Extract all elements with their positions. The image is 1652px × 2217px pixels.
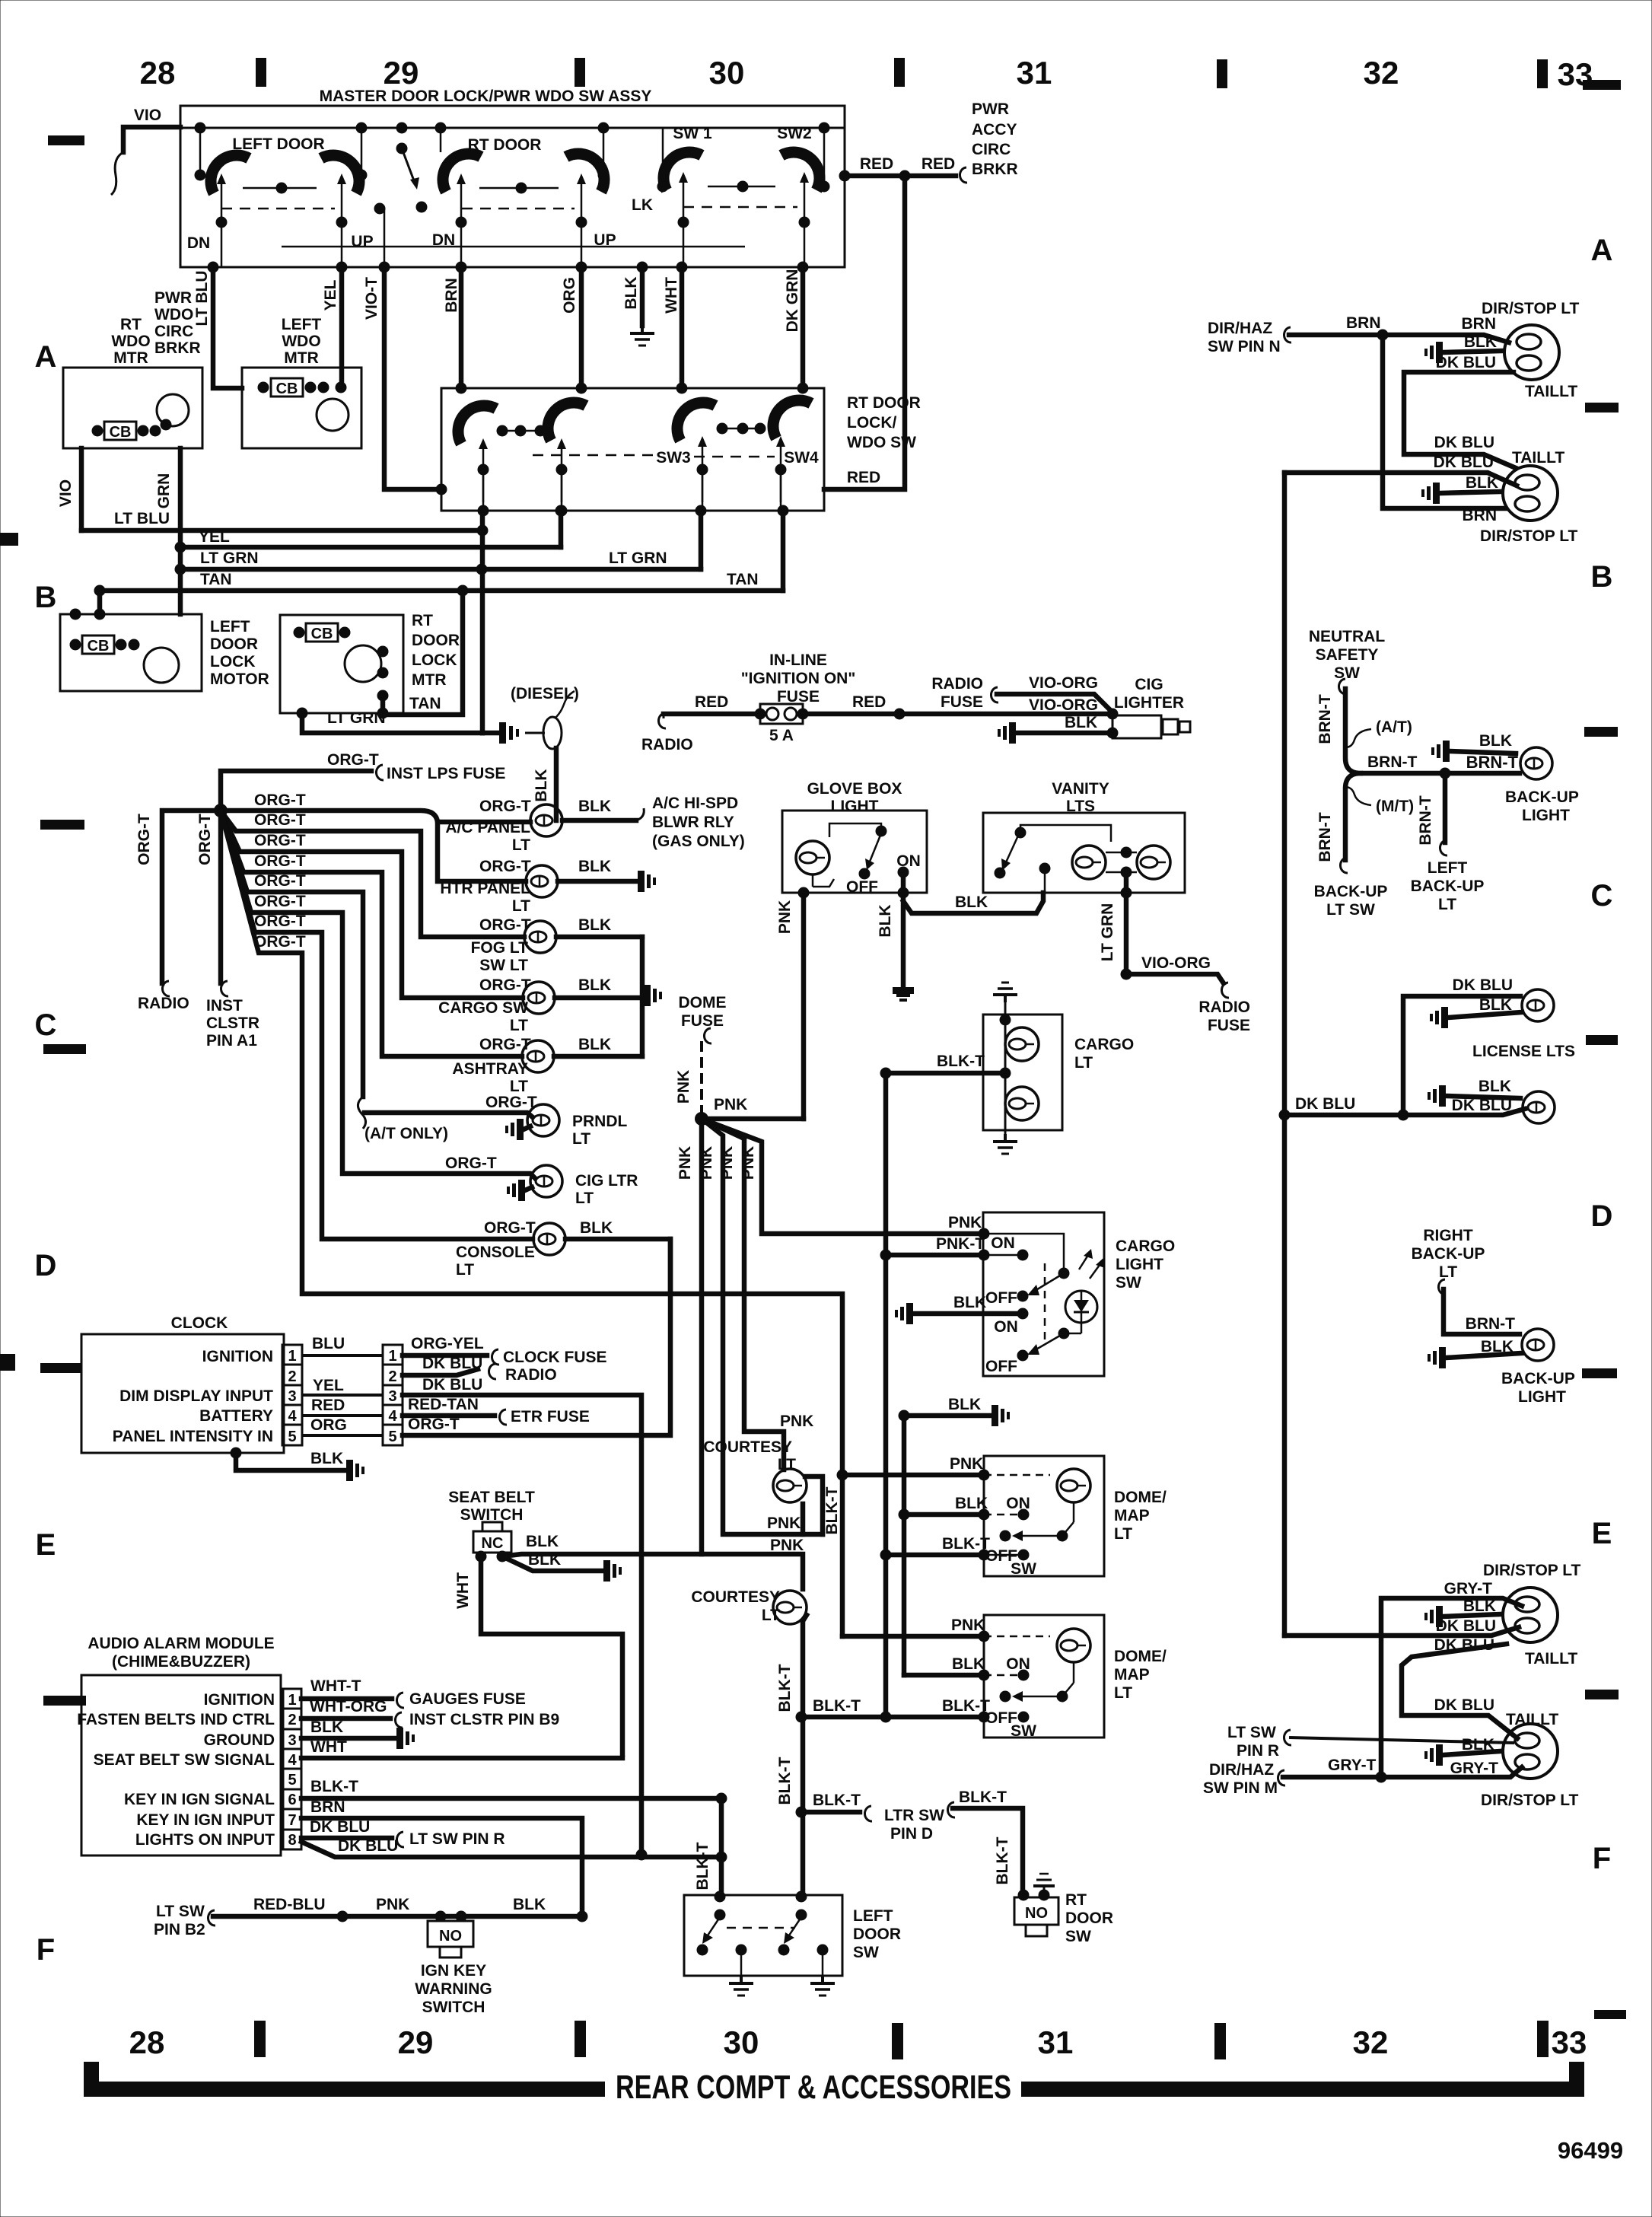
svg-text:BLK-T: BLK-T <box>776 1664 794 1712</box>
svg-text:BRKR: BRKR <box>972 161 1018 178</box>
lamp courtesy 1 <box>773 1469 807 1502</box>
label RT WDO MTR <box>111 316 150 367</box>
wire ORG-T clock pin5 <box>403 1239 670 1435</box>
ground PRNDL LT <box>505 1119 524 1140</box>
wire ORG-T branch 7 to CONSOLE LT <box>221 811 533 1239</box>
node ltr sw curl right <box>947 1802 955 1817</box>
wire YEL clock pin3 <box>302 1394 383 1397</box>
lamp right back-up <box>1522 1329 1554 1361</box>
svg-text:BLK: BLK <box>1065 714 1097 731</box>
node cargo sw OFF2 contact <box>1017 1350 1029 1362</box>
svg-text:TAILLT: TAILLT <box>1506 1711 1558 1728</box>
svg-text:LT: LT <box>1114 1525 1132 1543</box>
svg-text:INST LPS FUSE: INST LPS FUSE <box>387 765 505 782</box>
svg-text:BLK: BLK <box>528 1551 561 1569</box>
label NEUTRAL SAFETY SW <box>1309 628 1385 682</box>
svg-text:LT GRN: LT GRN <box>327 709 386 727</box>
svg-text:(CHIME&BUZZER): (CHIME&BUZZER) <box>112 1653 250 1671</box>
label DOME/MAP LT 1 <box>1114 1489 1167 1543</box>
svg-text:CIG LTR: CIG LTR <box>575 1172 638 1190</box>
node top ruler numbers <box>140 55 1593 92</box>
svg-text:BRN: BRN <box>1462 315 1497 333</box>
svg-text:DK BLU: DK BLU <box>1434 1696 1494 1714</box>
svg-text:BRN: BRN <box>1346 314 1381 332</box>
svg-text:PIN R: PIN R <box>1237 1742 1279 1760</box>
svg-text:LT: LT <box>510 1017 528 1034</box>
wire RED output to PWR ACCY CIRC BRKR <box>839 167 968 183</box>
svg-text:FUSE: FUSE <box>1208 1017 1250 1034</box>
svg-text:DK BLU: DK BLU <box>310 1818 370 1836</box>
svg-text:PNK: PNK <box>376 1896 409 1913</box>
node DIESEL splice oval <box>525 691 575 749</box>
wire BLK dome map bus <box>899 1410 990 1681</box>
svg-text:PNK-T: PNK-T <box>936 1235 985 1253</box>
svg-text:SAFETY: SAFETY <box>1316 646 1379 664</box>
svg-text:TAILLT: TAILLT <box>1512 449 1564 467</box>
svg-text:RED-TAN: RED-TAN <box>408 1396 479 1413</box>
svg-text:E: E <box>36 1528 56 1562</box>
node cargo sw internal feed <box>984 1234 1070 1295</box>
wire ORG-T from RADIO <box>162 811 221 996</box>
svg-text:BLK: BLK <box>578 1036 611 1053</box>
label GLOVE BOX LIGHT <box>807 780 902 815</box>
wire GRY-T taillight 3 <box>1381 1598 1522 1776</box>
svg-text:LT: LT <box>1114 1684 1132 1702</box>
svg-text:BLK: BLK <box>877 904 894 937</box>
svg-text:DOME/: DOME/ <box>1114 1648 1167 1665</box>
svg-text:LT: LT <box>1438 896 1456 913</box>
svg-text:30: 30 <box>709 55 745 91</box>
switch box RT DOOR LOCK/WDO SW <box>441 388 824 511</box>
svg-text:C: C <box>35 1008 57 1042</box>
wire BLK-T to cargo lamp <box>880 1068 1006 1079</box>
svg-text:COURTESY: COURTESY <box>691 1588 780 1606</box>
svg-text:A: A <box>1591 234 1613 267</box>
node plunger stems with arrows <box>479 436 785 502</box>
wire DK BLU clock pin3 long <box>403 1395 641 1855</box>
node dome map 2 switch <box>984 1636 1074 1723</box>
svg-text:4: 4 <box>288 1408 297 1425</box>
wire BLK ground bus vertical <box>640 937 645 1056</box>
wire ORG-T branch 6 to CIG LTR LT <box>221 811 535 1178</box>
svg-text:BLK-T: BLK-T <box>823 1486 841 1534</box>
node PNK distribution node <box>695 1112 708 1126</box>
svg-text:(M/T): (M/T) <box>1376 798 1414 815</box>
wire RED to fuse <box>664 712 760 717</box>
ground cargo light sw <box>895 1303 913 1324</box>
svg-text:GAUGES FUSE: GAUGES FUSE <box>409 1690 526 1708</box>
svg-text:YEL: YEL <box>313 1377 344 1394</box>
label CIG LTR LT <box>575 1172 638 1207</box>
svg-text:28: 28 <box>140 55 176 91</box>
switch IGN KEY WARNING NO <box>428 1921 473 1957</box>
wire BRN-T from neutral safety sw <box>1345 689 1520 773</box>
svg-text:(DIESEL): (DIESEL) <box>511 685 579 702</box>
lamp CIG LTR LT <box>530 1165 562 1197</box>
wire WHT from seat belt switch <box>481 1556 622 1754</box>
svg-text:A/C PANEL: A/C PANEL <box>445 819 530 836</box>
node top ruler ticks <box>256 58 1548 88</box>
label A/C PANEL LT <box>445 819 530 854</box>
svg-text:BRN: BRN <box>443 278 460 313</box>
svg-text:DN: DN <box>187 234 210 252</box>
wire BLK glove box to vanity <box>903 893 1043 913</box>
svg-text:PNK: PNK <box>675 1070 692 1104</box>
svg-text:BLK: BLK <box>533 769 550 801</box>
svg-text:YEL: YEL <box>322 279 339 311</box>
node led arrows <box>1079 1249 1105 1279</box>
svg-text:PNK: PNK <box>950 1455 983 1473</box>
breaker CB of RT WDO MTR <box>104 422 136 441</box>
ground taillight third <box>1424 1606 1443 1627</box>
svg-text:LT: LT <box>1439 1263 1457 1281</box>
svg-text:RT: RT <box>1065 1891 1087 1909</box>
svg-text:TAN: TAN <box>409 695 441 712</box>
wire BLK seat belt to ground <box>502 1556 601 1571</box>
wire BLK audio alarm ground <box>301 1736 394 1741</box>
wire ORG-T branch 2 to FOG LT SW LT <box>221 811 524 937</box>
label VANITY LTS <box>1052 780 1109 815</box>
svg-text:LK: LK <box>632 196 653 214</box>
wire DK BLU license 1 <box>1403 996 1520 1115</box>
node PNK fan labels <box>676 1146 757 1180</box>
label RADIO FUSE <box>1198 999 1250 1034</box>
svg-text:RED: RED <box>921 155 955 173</box>
ground panel lamp bus <box>644 985 662 1006</box>
svg-text:CARGO: CARGO <box>1116 1238 1175 1255</box>
node brn-t junction <box>1440 768 1451 779</box>
svg-text:LT: LT <box>575 1190 594 1207</box>
node vanity switch <box>995 825 1112 893</box>
label A/C HI-SPD BLWR RLY (GAS ONLY) <box>652 795 745 850</box>
svg-text:ORG-T: ORG-T <box>254 792 306 809</box>
node dome map 1 switch <box>984 1475 1074 1561</box>
svg-text:BRN-T: BRN-T <box>1466 1315 1515 1333</box>
svg-text:RED: RED <box>695 693 728 711</box>
switch arc left-door up <box>321 155 359 193</box>
switch arc SW2 <box>781 152 820 190</box>
svg-text:LT: LT <box>512 836 530 854</box>
svg-text:UP: UP <box>351 233 373 250</box>
motor box RT DOOR LOCK MTR <box>280 615 403 713</box>
svg-text:LIGHT: LIGHT <box>1522 807 1570 824</box>
svg-text:INST CLSTR PIN B9: INST CLSTR PIN B9 <box>409 1711 559 1728</box>
svg-text:TAILLT: TAILLT <box>1525 1650 1577 1668</box>
svg-text:SW3: SW3 <box>656 449 691 467</box>
node radio fuse curl <box>991 687 998 702</box>
svg-text:BLK: BLK <box>526 1533 559 1550</box>
wire BLK seat belt to door switch <box>502 1554 702 1556</box>
label PWR ACCY CIRC BRKR <box>972 100 1018 178</box>
ground left door sw 2 <box>810 1976 835 1996</box>
svg-text:IGN KEY: IGN KEY <box>421 1962 486 1980</box>
wire BLK-T courtesy chain vertical <box>803 1615 807 1897</box>
bulb vanity right <box>1137 846 1170 879</box>
wire PNK branch 3 courtesy lt 2 <box>702 1119 803 1589</box>
svg-text:DK BLU: DK BLU <box>1452 1097 1512 1114</box>
svg-text:KEY IN IGN SIGNAL: KEY IN IGN SIGNAL <box>124 1791 275 1808</box>
label RT DOOR LOCK/WDO SW <box>847 394 921 451</box>
lamp BACK-UP LIGHT <box>1520 747 1552 779</box>
svg-text:TAN: TAN <box>727 571 759 588</box>
wire VIO-ORG to RADIO FUSE <box>1126 974 1229 998</box>
wire DK BLU to RADIO <box>403 1364 496 1379</box>
ground back-up light <box>1431 741 1450 762</box>
wire BLK-T to RT DOOR SW <box>953 1808 1023 1895</box>
svg-text:BACK-UP: BACK-UP <box>1314 883 1388 900</box>
svg-text:VIO: VIO <box>134 107 161 124</box>
switch arc SW1 <box>664 152 702 190</box>
svg-text:PNK: PNK <box>676 1146 694 1180</box>
svg-text:NO: NO <box>439 1928 462 1945</box>
svg-text:LEFT: LEFT <box>210 618 250 635</box>
svg-text:DIR/STOP LT: DIR/STOP LT <box>1482 300 1580 317</box>
svg-text:LIGHTS ON INPUT: LIGHTS ON INPUT <box>135 1831 275 1849</box>
label AUDIO ALARM MODULE (CHIME&BUZZER) <box>88 1635 274 1671</box>
svg-text:DK BLU: DK BLU <box>422 1355 482 1372</box>
lamp box DOME/MAP LT 2 <box>984 1615 1104 1738</box>
svg-text:SW PIN N: SW PIN N <box>1208 338 1281 355</box>
svg-text:BLK: BLK <box>310 1450 343 1467</box>
svg-text:PNK: PNK <box>714 1096 747 1113</box>
label LEFT BACK-UP LT <box>1411 859 1485 913</box>
svg-text:SW: SW <box>853 1944 879 1961</box>
svg-text:ORG-T: ORG-T <box>196 814 214 865</box>
lamp taillight right-second <box>1503 466 1558 521</box>
svg-text:MAP: MAP <box>1114 1507 1150 1524</box>
lamp taillight right-fourth <box>1503 1724 1558 1779</box>
svg-text:F: F <box>1593 1842 1611 1875</box>
svg-text:YEL: YEL <box>199 528 230 546</box>
svg-text:VIO: VIO <box>57 479 75 507</box>
svg-text:ORG-T: ORG-T <box>479 916 531 934</box>
node cargo sw ON contact <box>1017 1250 1029 1261</box>
svg-text:RED-BLU: RED-BLU <box>253 1896 326 1913</box>
svg-text:ON: ON <box>994 1318 1018 1336</box>
switch RT DOOR SW <box>1014 1890 1058 1937</box>
svg-text:CLOCK FUSE: CLOCK FUSE <box>503 1349 607 1366</box>
label BACK-UP LIGHT <box>1501 1370 1575 1406</box>
svg-text:E: E <box>1592 1517 1612 1550</box>
svg-text:GLOVE BOX: GLOVE BOX <box>807 780 902 798</box>
wire BLU clock pin1 <box>302 1354 383 1357</box>
wire BRN-T to left back-up lt <box>1440 773 1447 855</box>
svg-text:6: 6 <box>288 1792 296 1808</box>
svg-text:LT: LT <box>512 897 530 915</box>
svg-text:LEFT: LEFT <box>282 316 322 333</box>
svg-text:LT BLU: LT BLU <box>114 510 170 527</box>
label HTR PANEL LT <box>440 880 530 915</box>
svg-text:BACK-UP: BACK-UP <box>1412 1245 1485 1263</box>
switch box LEFT DOOR SW <box>684 1895 842 1976</box>
svg-text:NO: NO <box>1025 1905 1048 1922</box>
svg-text:CIG: CIG <box>1135 676 1163 693</box>
svg-text:MTR: MTR <box>284 349 319 367</box>
label RT DOOR LOCK MTR <box>412 612 460 689</box>
svg-text:LIGHT: LIGHT <box>831 798 879 815</box>
label FOG LT SW LT <box>471 939 529 974</box>
svg-text:PIN D: PIN D <box>890 1825 933 1843</box>
label DOME/MAP LT 2 <box>1114 1648 1167 1702</box>
svg-text:29: 29 <box>398 2024 434 2060</box>
svg-text:(A/T): (A/T) <box>1376 718 1412 736</box>
svg-text:BLWR RLY: BLWR RLY <box>652 814 734 831</box>
svg-text:ORG-T: ORG-T <box>327 751 379 769</box>
switch arc lock right b <box>773 400 811 438</box>
wire BRN key in ign input <box>301 1818 582 1916</box>
node switch plunger stems with arrows <box>217 172 809 222</box>
wire BLK taillight second <box>1440 492 1501 493</box>
svg-text:BLK: BLK <box>953 1294 986 1311</box>
svg-text:LEFT: LEFT <box>1428 859 1468 877</box>
wire BLK glove box to ground <box>898 872 909 986</box>
svg-text:CONSOLE: CONSOLE <box>456 1244 535 1261</box>
svg-text:CLSTR: CLSTR <box>206 1015 259 1032</box>
lamp CARGO SW LT <box>523 982 555 1014</box>
node M/T squiggle <box>1345 787 1371 805</box>
svg-text:B: B <box>1591 560 1613 594</box>
lamp box VANITY LTS <box>983 813 1185 893</box>
node contact dots left trio <box>497 425 546 437</box>
svg-text:WHT: WHT <box>454 1572 472 1609</box>
svg-text:"IGNITION ON": "IGNITION ON" <box>741 670 856 687</box>
svg-text:DK BLU: DK BLU <box>1436 354 1496 371</box>
label COURTESY LT 1 <box>703 1438 796 1473</box>
svg-text:3: 3 <box>288 1388 296 1405</box>
svg-text:PNK: PNK <box>718 1146 736 1180</box>
svg-text:OFF: OFF <box>985 1289 1017 1307</box>
svg-text:CARGO SW: CARGO SW <box>438 999 528 1017</box>
ground license 1 <box>1430 1007 1448 1028</box>
svg-text:LT GRN: LT GRN <box>200 549 259 567</box>
wire PNK node to glove box <box>702 1116 804 1122</box>
wire ORG-T branch 4 to ASHTRAY LT <box>221 811 522 1056</box>
svg-text:VIO-ORG: VIO-ORG <box>1029 674 1098 692</box>
node cargo rail dots <box>1000 1015 1011 1079</box>
svg-text:ACCY: ACCY <box>972 121 1017 139</box>
svg-text:BLU: BLU <box>312 1335 345 1352</box>
fuse IN-LINE IGNITION ON 5A <box>755 704 809 724</box>
node switch terminal stubs <box>195 128 830 267</box>
label RADIO FUSE <box>931 675 983 711</box>
wire WHT-T to GAUGES FUSE <box>301 1693 404 1708</box>
svg-text:31: 31 <box>1038 2024 1074 2060</box>
svg-text:ORG-T: ORG-T <box>479 976 531 994</box>
svg-text:AUDIO ALARM MODULE: AUDIO ALARM MODULE <box>88 1635 274 1652</box>
bulb dome map 1 <box>1057 1469 1090 1502</box>
wire LT GRN from vanity <box>1121 872 1132 980</box>
bulb cargo upper <box>1005 1027 1039 1061</box>
svg-text:BLK-T: BLK-T <box>994 1836 1011 1884</box>
svg-text:ORG-T: ORG-T <box>479 858 531 875</box>
svg-text:HTR PANEL: HTR PANEL <box>440 880 530 897</box>
wire PNK-T input <box>880 1250 990 1261</box>
svg-text:PWR: PWR <box>972 100 1009 118</box>
svg-text:DK BLU: DK BLU <box>1434 454 1494 471</box>
svg-text:DIR/HAZ: DIR/HAZ <box>1209 1761 1274 1779</box>
svg-text:ORG-T: ORG-T <box>254 933 306 951</box>
svg-text:1: 1 <box>288 1692 296 1709</box>
bulb vanity left <box>1072 846 1106 879</box>
wire VIO-T drop <box>384 267 441 489</box>
wire VIO feed <box>111 127 180 195</box>
svg-text:IGNITION: IGNITION <box>204 1691 275 1709</box>
ground taillight upper <box>1424 342 1443 363</box>
svg-text:FASTEN BELTS IND CTRL: FASTEN BELTS IND CTRL <box>77 1711 275 1728</box>
svg-text:RT: RT <box>412 612 433 629</box>
svg-text:1: 1 <box>388 1348 396 1365</box>
svg-text:2: 2 <box>388 1368 396 1385</box>
svg-text:DK BLU: DK BLU <box>1295 1095 1355 1113</box>
wire GRN from RT WDO MTR <box>178 448 183 614</box>
label BACK-UP LIGHT <box>1505 788 1579 824</box>
node A/T splice curl <box>358 1097 365 1129</box>
bulb cargo lower <box>1005 1087 1039 1120</box>
svg-text:RT DOOR: RT DOOR <box>847 394 921 412</box>
wire ORG-T branch 5 to PRNDL LT <box>221 811 363 1097</box>
ground cargo bottom <box>993 1134 1017 1154</box>
ground dome map bus <box>992 1405 1010 1426</box>
svg-text:LOCK/: LOCK/ <box>847 414 896 432</box>
svg-text:BLK: BLK <box>1463 1597 1496 1615</box>
node right back-up curl <box>1438 1279 1446 1295</box>
label LT SW PIN B2 <box>154 1903 205 1938</box>
svg-text:DIR/STOP LT: DIR/STOP LT <box>1480 527 1578 545</box>
connector audio alarm pins 1-8 <box>283 1689 301 1849</box>
svg-text:(A/T ONLY): (A/T ONLY) <box>364 1125 448 1142</box>
svg-text:BLK: BLK <box>622 276 640 309</box>
wire PNK to dome map boxes <box>837 1470 990 1642</box>
svg-text:RIGHT: RIGHT <box>1423 1227 1473 1244</box>
wire WHT-ORG to INST CLSTR PIN B9 <box>301 1712 403 1728</box>
motor box RT WDO MTR <box>63 368 202 448</box>
node rail junction dots <box>195 123 830 134</box>
lamp box DOME/MAP LT 1 <box>984 1456 1104 1576</box>
svg-text:VIO-T: VIO-T <box>363 277 380 320</box>
label ASHTRAY LT <box>452 1060 528 1095</box>
svg-text:BACK-UP: BACK-UP <box>1505 788 1579 806</box>
node row letters right <box>1591 234 1613 1875</box>
lamp courtesy 2 <box>773 1591 807 1624</box>
svg-text:BRN-T: BRN-T <box>1417 795 1434 845</box>
svg-text:PNK: PNK <box>698 1146 715 1180</box>
svg-text:BRN: BRN <box>1463 507 1498 524</box>
svg-text:TAILLT: TAILLT <box>1525 383 1577 400</box>
svg-text:DOOR: DOOR <box>853 1926 901 1943</box>
svg-text:BLK-T: BLK-T <box>776 1757 794 1804</box>
svg-text:LICENSE LTS: LICENSE LTS <box>1472 1043 1575 1060</box>
ground HTR PANEL <box>638 871 656 892</box>
wire BLK-T key in ign signal <box>301 1798 721 1897</box>
wire ORG drop <box>579 267 584 388</box>
svg-text:DK BLU: DK BLU <box>1436 1617 1496 1635</box>
wire DK BLU to taillight third <box>1284 1627 1519 1636</box>
svg-text:MOTOR: MOTOR <box>210 671 269 688</box>
svg-text:PIN B2: PIN B2 <box>154 1921 205 1938</box>
label PWR WDO CIRC BRKR <box>154 289 201 357</box>
switch arc rt-door up <box>566 154 604 192</box>
wire DK BLU to LT SW PIN R <box>301 1832 404 1847</box>
svg-text:BLK: BLK <box>1464 333 1497 351</box>
svg-text:RED: RED <box>860 155 893 173</box>
node contact dots right trio <box>717 423 766 435</box>
node left door sw contacts <box>697 1891 829 1977</box>
wire BLK taillight upper <box>1443 351 1503 352</box>
node cargo sw OFF contact <box>1017 1291 1029 1302</box>
ground CIG LTR LT <box>507 1180 525 1201</box>
wire BLK-T to LTR SW PIN D <box>796 1806 873 1821</box>
wire ground chain from lock switch <box>480 511 485 733</box>
